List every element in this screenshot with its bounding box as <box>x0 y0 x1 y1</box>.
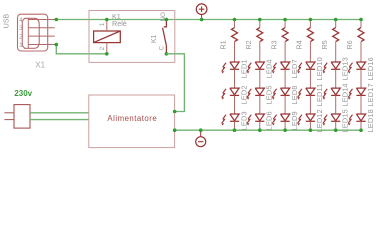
LED LED10 triangle <box>306 62 315 69</box>
svg-text:LED1: LED1 <box>239 59 248 78</box>
LED LED6 triangle <box>255 114 264 121</box>
LED LED12 cathode bar <box>306 120 315 122</box>
svg-text:LED17: LED17 <box>366 83 375 106</box>
junction coil pin 1 <box>105 18 109 22</box>
LED LED8 emission arrows <box>272 89 277 100</box>
lead R3 to LED7 <box>284 42 286 62</box>
LED LED3 triangle <box>230 114 239 121</box>
junction column 1 bottom <box>233 128 237 132</box>
LED LED1 emission arrows <box>221 63 226 74</box>
LED LED7 triangle <box>281 62 290 69</box>
LED LED13 emission arrows <box>323 63 328 74</box>
LED LED13 cathode bar <box>331 68 340 70</box>
lead LED18 to bottom bus <box>360 121 362 130</box>
X1 pin 1 lead <box>28 44 55 46</box>
lead LED11 to LED12 <box>309 95 311 114</box>
junction column 6 top <box>359 18 363 22</box>
LED LED9 cathode bar <box>281 120 290 122</box>
LED LED16 cathode bar <box>356 68 365 70</box>
svg-text:2: 2 <box>100 46 106 50</box>
K1 switch NO lead <box>165 20 167 27</box>
lead LED10 to LED11 <box>309 69 311 88</box>
svg-text:R4: R4 <box>295 40 304 49</box>
K1 coil pin 1 lead <box>106 20 108 32</box>
lead LED9 to bottom bus <box>284 121 286 130</box>
svg-text:LED10: LED10 <box>315 57 324 80</box>
svg-text:NO: NO <box>160 12 167 22</box>
K1 coil pin 2 lead <box>106 43 108 54</box>
LED LED15 emission arrows <box>323 115 328 126</box>
X1 pin 2 lead <box>28 35 55 37</box>
resistor R6 lead top <box>360 20 362 28</box>
svg-text:Alimentatore: Alimentatore <box>107 114 157 123</box>
LED LED2 emission arrows <box>221 89 226 100</box>
junction column 2 top <box>258 18 262 22</box>
junction column 1 top <box>233 18 237 22</box>
svg-text:LED18: LED18 <box>366 109 375 132</box>
svg-text:R6: R6 <box>345 40 354 49</box>
power supply Alimentatore box <box>89 95 175 148</box>
LED LED16 emission arrows <box>348 63 353 74</box>
svg-text:LED7: LED7 <box>290 59 299 78</box>
connector X1 USB plug face <box>22 18 39 48</box>
lead LED3 to bottom bus <box>234 121 236 130</box>
LED LED15 cathode bar <box>331 120 340 122</box>
LED LED4 triangle <box>255 62 264 69</box>
K1 switch NO contact tick <box>164 26 167 28</box>
svg-text:R1: R1 <box>219 40 228 49</box>
X1 pin 3 lead <box>28 27 55 29</box>
lead LED5 to LED6 <box>259 95 261 114</box>
svg-text:4: 4 <box>19 17 23 24</box>
X1 pin 4 lead <box>28 19 55 21</box>
lead LED1 to LED2 <box>234 69 236 88</box>
LED LED12 emission arrows <box>297 115 302 126</box>
lead R2 to LED4 <box>259 42 261 62</box>
resistor R2 lead top <box>259 20 261 28</box>
LED LED18 emission arrows <box>348 115 353 126</box>
svg-text:Relè: Relè <box>112 19 127 28</box>
resistor R5 zigzag <box>333 28 339 42</box>
LED LED7 cathode bar <box>281 68 290 70</box>
lead LED12 to bottom bus <box>309 121 311 130</box>
svg-text:R5: R5 <box>320 40 329 49</box>
LED LED6 cathode bar <box>255 120 264 122</box>
svg-text:LED6: LED6 <box>265 111 274 130</box>
svg-text:230v: 230v <box>14 89 32 98</box>
junction alimentatore - output <box>173 128 177 132</box>
junction column 3 bottom <box>283 128 287 132</box>
junction coil pin 2 <box>105 52 109 56</box>
LED LED10 emission arrows <box>297 63 302 74</box>
svg-text:X1: X1 <box>35 61 45 70</box>
junction switch NO <box>165 18 169 22</box>
K1 switch C lead <box>165 46 167 54</box>
junction column 2 bottom <box>258 128 262 132</box>
LED LED11 cathode bar <box>306 94 315 96</box>
LED LED8 cathode bar <box>281 94 290 96</box>
resistor R6 zigzag <box>358 28 364 42</box>
LED LED2 cathode bar <box>230 94 239 96</box>
LED LED3 cathode bar <box>230 120 239 122</box>
LED LED12 triangle <box>306 114 315 121</box>
lead R4 to LED10 <box>309 42 311 62</box>
terminal - minus sign <box>198 141 203 143</box>
LED LED8 triangle <box>281 88 290 95</box>
terminal - circle <box>196 137 206 147</box>
resistor R3 lead top <box>284 20 286 28</box>
LED LED10 cathode bar <box>306 68 315 70</box>
mains plug lead lower <box>4 119 14 121</box>
LED LED11 triangle <box>306 88 315 95</box>
wire: plug to alimentatore upper <box>30 112 89 114</box>
junction column 6 bottom <box>359 128 363 132</box>
relay K1 coil <box>94 31 121 43</box>
terminal - stub <box>200 130 202 136</box>
svg-text:LED2: LED2 <box>239 85 248 104</box>
wire: switch C to alimentatore output <box>166 54 184 112</box>
svg-text:LED14: LED14 <box>341 83 350 106</box>
svg-text:1: 1 <box>19 42 23 49</box>
lead LED14 to LED15 <box>335 95 337 114</box>
relay K1 coil diagonal <box>94 31 121 43</box>
svg-text:USB: USB <box>4 13 11 28</box>
lead LED16 to LED17 <box>360 69 362 88</box>
lead R5 to LED13 <box>335 42 337 62</box>
svg-text:2: 2 <box>19 34 23 41</box>
LED LED1 triangle <box>230 62 239 69</box>
LED LED14 triangle <box>331 88 340 95</box>
lead R1 to LED1 <box>234 42 236 62</box>
svg-text:LED16: LED16 <box>366 57 375 80</box>
svg-text:LED15: LED15 <box>341 109 350 132</box>
svg-text:LED13: LED13 <box>341 57 350 80</box>
LED LED17 cathode bar <box>356 94 365 96</box>
wire: plug to alimentatore lower <box>30 119 89 121</box>
svg-text:R2: R2 <box>244 40 253 49</box>
wire: alimentatore - output to bottom bus <box>175 129 362 131</box>
mains plug body <box>14 105 30 129</box>
resistor R5 lead top <box>335 20 337 28</box>
LED LED4 emission arrows <box>247 63 252 74</box>
resistor R1 lead top <box>234 20 236 28</box>
wire VCC: USB pin4 to top bus <box>55 19 362 21</box>
junction column 3 top <box>283 18 287 22</box>
LED LED9 emission arrows <box>272 115 277 126</box>
LED LED14 emission arrows <box>323 89 328 100</box>
svg-text:1: 1 <box>100 22 106 26</box>
lead LED13 to LED14 <box>335 69 337 88</box>
terminal + circle <box>196 4 207 15</box>
svg-text:C: C <box>159 45 166 50</box>
LED LED16 triangle <box>356 62 365 69</box>
resistor R4 zigzag <box>307 28 313 42</box>
LED LED14 cathode bar <box>331 94 340 96</box>
junction column 5 bottom <box>334 128 338 132</box>
connector X1 USB centre bar <box>27 18 29 48</box>
svg-text:LED3: LED3 <box>239 111 248 130</box>
K1 switch blade <box>163 28 167 46</box>
mains plug lead upper <box>4 112 14 114</box>
lead LED7 to LED8 <box>284 69 286 88</box>
LED LED4 cathode bar <box>255 68 264 70</box>
LED LED9 triangle <box>281 114 290 121</box>
svg-text:LED12: LED12 <box>315 109 324 132</box>
junction column 4 bottom <box>309 128 313 132</box>
junction at USB pin 1 <box>55 43 59 47</box>
LED LED13 triangle <box>331 62 340 69</box>
junction column 5 top <box>334 18 338 22</box>
svg-text:R3: R3 <box>269 40 278 49</box>
LED LED5 triangle <box>255 88 264 95</box>
LED LED1 cathode bar <box>230 68 239 70</box>
LED LED17 triangle <box>356 88 365 95</box>
lead R6 to LED16 <box>360 42 362 62</box>
LED LED5 emission arrows <box>247 89 252 100</box>
svg-text:LED4: LED4 <box>265 59 274 78</box>
lead LED8 to LED9 <box>284 95 286 114</box>
connector X1 USB outer body <box>18 14 48 51</box>
terminal + stub <box>201 15 203 20</box>
junction column 4 top <box>309 18 313 22</box>
junction at USB pin 4 <box>55 18 59 22</box>
LED LED18 cathode bar <box>356 120 365 122</box>
LED LED6 emission arrows <box>247 115 252 126</box>
LED LED15 triangle <box>331 114 340 121</box>
svg-text:LED9: LED9 <box>290 111 299 130</box>
svg-text:LED11: LED11 <box>315 83 324 106</box>
terminal + plus sign <box>199 8 205 10</box>
lead LED2 to LED3 <box>234 95 236 114</box>
junction alimentatore + output <box>173 110 177 114</box>
svg-text:3: 3 <box>19 25 23 32</box>
LED LED2 triangle <box>230 88 239 95</box>
LED LED5 cathode bar <box>255 94 264 96</box>
relay K1 group outline box <box>89 11 175 63</box>
resistor R4 lead top <box>309 20 311 28</box>
lead LED15 to bottom bus <box>335 121 337 130</box>
LED LED11 emission arrows <box>297 89 302 100</box>
junction + terminal <box>200 18 204 22</box>
lead LED4 to LED5 <box>259 69 261 88</box>
lead LED6 to bottom bus <box>259 121 261 130</box>
LED LED18 triangle <box>356 114 365 121</box>
svg-text:LED8: LED8 <box>290 85 299 104</box>
svg-text:K1: K1 <box>151 35 158 44</box>
LED LED7 emission arrows <box>272 63 277 74</box>
resistor R2 zigzag <box>257 28 263 42</box>
lead LED17 to LED18 <box>360 95 362 114</box>
resistor R3 zigzag <box>282 28 288 42</box>
LED LED3 emission arrows <box>221 115 226 126</box>
junction switch C <box>165 52 169 56</box>
resistor R1 zigzag <box>232 28 238 42</box>
LED LED17 emission arrows <box>348 89 353 100</box>
wire: USB pin1 jog down <box>55 45 107 54</box>
junction - terminal <box>199 128 203 132</box>
svg-text:LED5: LED5 <box>265 85 274 104</box>
